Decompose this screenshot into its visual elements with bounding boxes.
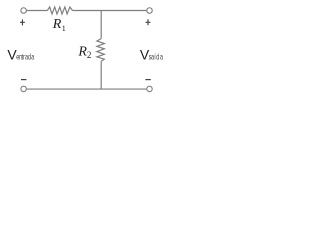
svg-text:1: 1 xyxy=(62,24,66,33)
svg-text:2: 2 xyxy=(87,50,92,60)
svg-text:R: R xyxy=(52,17,62,32)
svg-text:saída: saída xyxy=(149,51,164,62)
svg-text:entrada: entrada xyxy=(16,51,35,62)
svg-text:R: R xyxy=(77,44,87,59)
